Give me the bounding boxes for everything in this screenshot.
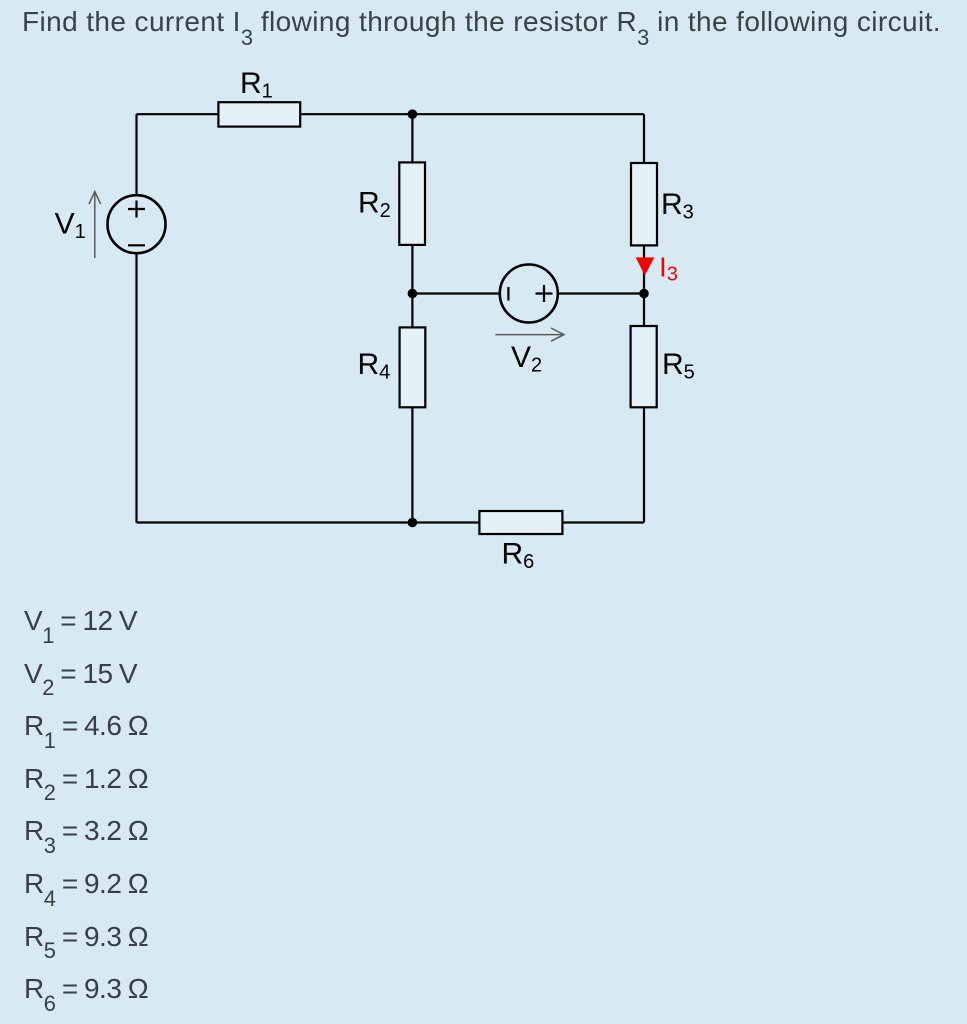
svg-text:R2: R2 <box>358 187 391 223</box>
svg-text:R6: R6 <box>502 538 535 574</box>
svg-text:I3: I3 <box>659 252 678 286</box>
svg-text:R5: R5 <box>662 348 695 384</box>
svg-text:V2: V2 <box>511 341 542 377</box>
svg-text:V1: V1 <box>55 208 86 244</box>
svg-text:R1: R1 <box>240 67 273 103</box>
svg-text:R3: R3 <box>661 188 694 224</box>
svg-text:R4: R4 <box>358 348 391 384</box>
